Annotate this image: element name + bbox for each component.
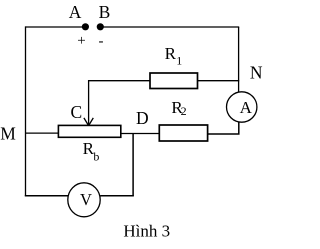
voltmeter V1 circle bbox=[68, 183, 100, 217]
wire from R1 left to wiper corner bbox=[89, 81, 150, 126]
svg-text:V: V bbox=[80, 190, 92, 209]
wire R1 right to node N vertical bbox=[198, 80, 240, 82]
wire right vertical down to ammeter bbox=[238, 27, 240, 93]
wire left vertical M side bbox=[25, 26, 27, 196]
svg-text:-: - bbox=[99, 34, 104, 50]
wire top-right: from node B dot to top-right corner bbox=[104, 26, 240, 28]
ammeter A1 circle bbox=[227, 92, 257, 122]
svg-text:C: C bbox=[70, 102, 82, 122]
svg-text:A: A bbox=[69, 2, 82, 22]
rheostat Rb box bbox=[58, 125, 120, 137]
svg-text:D: D bbox=[136, 108, 149, 128]
node B terminal dot bbox=[97, 23, 104, 30]
svg-text:Hình 3: Hình 3 bbox=[123, 222, 170, 241]
wire node D down to voltmeter loop bbox=[132, 134, 134, 197]
wire ammeter bottom to R2 right bbox=[208, 122, 239, 134]
wire top-left: from node A dot left to top-left corner bbox=[26, 26, 83, 28]
svg-text:R: R bbox=[165, 44, 177, 63]
svg-text:A: A bbox=[240, 98, 253, 117]
node A terminal dot bbox=[82, 23, 89, 30]
svg-text:M: M bbox=[0, 124, 16, 144]
svg-text:+: + bbox=[77, 33, 85, 49]
resistor R2 box bbox=[159, 125, 207, 141]
resistor R1 box bbox=[150, 73, 198, 89]
svg-text:2: 2 bbox=[181, 104, 187, 118]
wire rheostat right to R2 left with node D junction bbox=[121, 133, 160, 135]
svg-text:b: b bbox=[93, 150, 99, 164]
wire M to rheostat left bbox=[26, 132, 59, 134]
wire voltmeter to node D vertical bbox=[100, 195, 134, 197]
svg-text:N: N bbox=[250, 62, 263, 82]
svg-text:1: 1 bbox=[176, 54, 182, 68]
svg-text:B: B bbox=[99, 2, 111, 22]
wiper arrowhead barbs bbox=[84, 118, 93, 126]
wire bottom left to voltmeter bbox=[25, 195, 68, 197]
